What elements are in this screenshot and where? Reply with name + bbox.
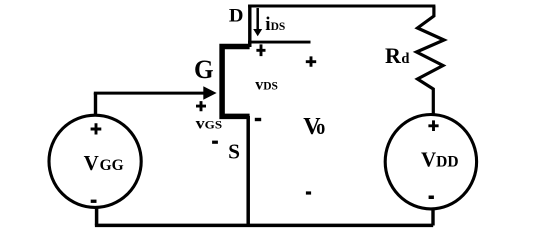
svg-text:S: S <box>228 140 240 164</box>
svg-text:vDS: vDS <box>255 77 278 94</box>
svg-text:D: D <box>229 6 244 27</box>
svg-text:vGS: vGS <box>196 116 223 133</box>
svg-text:G: G <box>194 55 214 84</box>
svg-text:Rd: Rd <box>385 43 409 68</box>
svg-text:VDD: VDD <box>421 148 459 172</box>
svg-text:VGG: VGG <box>84 151 124 175</box>
svg-text:o: o <box>316 115 325 139</box>
svg-text:iDS: iDS <box>265 14 285 35</box>
